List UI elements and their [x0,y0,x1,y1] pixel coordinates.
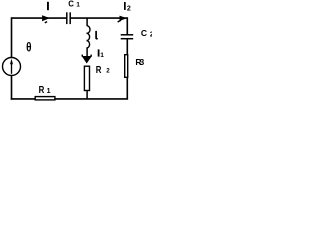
current arrow I1 [82,56,92,64]
bottom wire: right corner to R1 [55,98,128,100]
capacitor C1 [67,12,70,24]
wire R2 to bottom [86,91,88,99]
wire inductor to arrow [86,48,88,57]
current arrow I2 [120,16,128,21]
resistor R3 [125,55,128,78]
svg-text:C: C [68,0,74,8]
label R1 [39,84,51,95]
current arrow I [42,15,50,21]
capacitor C2 [121,35,134,39]
label I2 [124,2,131,13]
label R2 [96,64,111,75]
svg-text:2: 2 [150,31,152,38]
label R3 [135,57,144,67]
wire C2 to R3 [126,39,128,54]
wire top: left corner to C1 left plate [12,17,67,19]
wire top: C1 to top-right corner [70,17,127,19]
source circle [3,58,21,76]
svg-text:2: 2 [127,6,131,13]
wire right branch upper (corner to C2) [126,17,128,34]
svg-text:C: C [141,28,147,38]
svg-text:3: 3 [140,57,145,67]
svg-text:R: R [39,84,45,95]
wire R3 to bottom-right corner [126,78,128,99]
left wire upper (corner to source) [11,17,13,57]
label C2 [141,28,154,39]
label I1 [98,49,105,59]
svg-text:R: R [96,64,102,75]
resistor R1 [35,97,55,100]
inductor L [87,26,91,48]
source arrow [10,59,13,74]
resistor R2 [84,66,89,90]
svg-text:1: 1 [76,2,80,9]
svg-text:2: 2 [106,68,110,75]
left wire lower (source to bottom corner) [11,76,13,100]
svg-text:1: 1 [100,52,104,59]
wire: top junction to inductor [86,18,88,26]
svg-text:θ: θ [26,42,31,55]
svg-text:1: 1 [47,88,51,95]
label I [47,2,49,10]
bottom wire: R1 to left corner [11,98,35,100]
label L [96,31,98,39]
label C1 [68,0,80,9]
